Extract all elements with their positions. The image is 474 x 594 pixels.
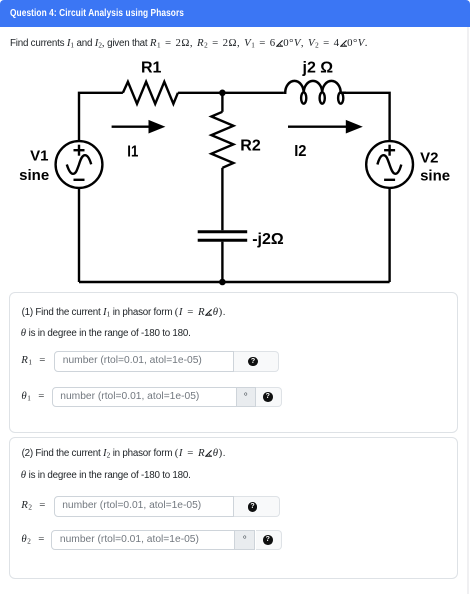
current arrow I2 (288, 120, 363, 134)
inductor j2 (284, 81, 346, 104)
source V2 (366, 141, 413, 188)
node junction top (219, 90, 226, 97)
wire top-left (79, 93, 123, 141)
wire R2 stem top (221, 93, 223, 112)
source V1 (56, 141, 103, 188)
resistor R1 (123, 82, 178, 104)
svg-text:R2: R2 (240, 138, 261, 155)
svg-text:I1: I1 (127, 144, 138, 161)
right page border (467, 27, 469, 594)
svg-text:sine: sine (19, 167, 49, 184)
wire right-bottom (388, 188, 390, 282)
svg-text:I2: I2 (294, 143, 306, 160)
svg-text:V1: V1 (30, 147, 48, 164)
svg-text:-j2Ω: -j2Ω (252, 231, 284, 248)
svg-text:sine: sine (420, 168, 450, 185)
svg-text:j2 Ω: j2 Ω (302, 59, 334, 76)
wire top-mid (178, 92, 284, 94)
node junction bottom (219, 279, 226, 286)
wire bottom (79, 281, 390, 283)
svg-text:R1: R1 (141, 60, 162, 77)
svg-text:V2: V2 (420, 149, 438, 166)
current arrow I1 (112, 120, 166, 134)
prompt line (10, 38, 368, 49)
wire top-right (346, 93, 390, 141)
header bar (0, 0, 470, 27)
circuit schematic (0, 55, 474, 295)
capacitor -j2 (198, 232, 248, 241)
wire capacitor to bottom (221, 242, 223, 282)
resistor R2 (211, 112, 233, 168)
question card 2 (9, 437, 458, 579)
question card 1 (9, 292, 458, 433)
wire R2 to capacitor (221, 168, 223, 230)
wire left-bottom (78, 188, 80, 282)
